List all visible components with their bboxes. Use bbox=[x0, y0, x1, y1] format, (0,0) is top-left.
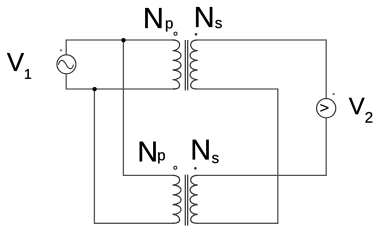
wire top rail left: V1 top to T1 primary bbox=[66, 40, 175, 55]
label V2 bbox=[349, 98, 372, 123]
label Np top bbox=[145, 8, 172, 31]
junction node on bottom-left rail bbox=[92, 87, 96, 91]
transformer T1 primary winding Np bbox=[173, 40, 181, 89]
transformer T2 primary winding Np bbox=[173, 175, 181, 223]
label Ns bottom bbox=[193, 140, 219, 163]
transformer T2 core bbox=[185, 175, 187, 226]
label Np bottom bbox=[140, 142, 165, 164]
wire vertical x=123 to T2 primary top bbox=[123, 40, 174, 175]
label V1 bbox=[7, 53, 31, 79]
polarity mark near V1 bbox=[60, 49, 62, 51]
transformer T1 secondary winding Ns bbox=[190, 40, 198, 89]
wire T1 secondary bottom down to T2 secondary bottom bbox=[197, 89, 278, 223]
wire T2 secondary top to V2 bottom bbox=[197, 118, 327, 175]
transformer T2 secondary winding Ns bbox=[190, 175, 198, 223]
polarity mark near V2 bbox=[332, 93, 334, 95]
T2 secondary polarity dot bbox=[194, 167, 197, 170]
wire bottom rail left: V1 bottom to T1 primary bottom bbox=[66, 74, 175, 89]
T1 primary polarity circle bbox=[174, 32, 177, 35]
wire vertical x=94 to T2 primary bottom bbox=[94, 89, 174, 223]
voltmeter V2 bbox=[317, 99, 336, 118]
wire T1 secondary top to V2 top bbox=[197, 40, 327, 99]
AC source V1 bbox=[57, 55, 76, 74]
label Ns top bbox=[196, 7, 222, 28]
T1 secondary polarity dot bbox=[195, 33, 198, 36]
transformer T1 core bbox=[185, 40, 187, 90]
junction node on top rail bbox=[121, 38, 125, 42]
T2 primary polarity circle bbox=[174, 166, 177, 169]
